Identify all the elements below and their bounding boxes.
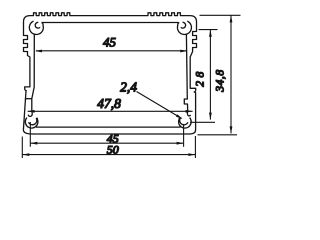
svg-text:2,4: 2,4 — [120, 80, 137, 95]
arrow 45 top left — [35, 50, 42, 53]
ext line 28 bottom — [190, 121, 215, 123]
svg-text:34,8: 34,8 — [215, 69, 227, 93]
arrow 50 right — [188, 153, 195, 156]
svg-text:45: 45 — [103, 35, 117, 50]
enclosure outer contour with serrated fins — [23, 13, 196, 134]
svg-text:50: 50 — [107, 142, 119, 156]
leader line 2.4 — [137, 92, 182, 119]
dimension line 34.8 — [230, 15, 232, 133]
ext line bottom 45 right — [183, 124, 185, 147]
left wall base ledge — [25, 98, 32, 100]
left wall lower hook lip — [28, 111, 32, 116]
ext line 28 top — [199, 29, 218, 31]
bottom-left screw boss — [25, 118, 38, 128]
arrow 45 top right — [180, 50, 187, 53]
left wall inner face — [32, 34, 35, 111]
arrow 28 bottom — [209, 113, 212, 120]
right wall inner face with pcb ledge — [184, 34, 187, 111]
svg-text:28: 28 — [195, 68, 207, 87]
ext line 50 right — [194, 136, 196, 158]
arrow 28 top — [209, 30, 212, 37]
bottom wall inner face — [36, 126, 181, 128]
top-right screw boss — [177, 21, 191, 34]
dimension line 50 — [22, 154, 195, 156]
arrow 2.4 — [176, 114, 183, 119]
arrow 34.8 bottom — [230, 126, 233, 133]
dimension line 45 top — [36, 50, 187, 52]
arrow 47.8 right — [186, 110, 193, 113]
right wall lower hook lip — [187, 111, 190, 116]
dimension line 28 — [209, 30, 211, 120]
dimension line 45 bottom — [30, 142, 183, 144]
top-left screw boss — [29, 21, 43, 34]
ext line 34.8 top — [200, 14, 241, 16]
top wall inner face — [42, 22, 179, 24]
arrow 50 left — [22, 153, 29, 156]
arrow 34.8 top — [230, 15, 233, 22]
ext line 50 left — [21, 137, 23, 159]
arrow 45 bottom left — [30, 142, 37, 145]
arrow 47.8 left — [28, 110, 35, 113]
dimension line 47.8 — [28, 110, 193, 112]
svg-text:47,8: 47,8 — [97, 96, 121, 111]
arrow 45 bottom right — [177, 142, 184, 145]
ext line 34.8 bottom — [198, 134, 238, 136]
bottom-right screw boss — [179, 118, 192, 128]
ext line bottom 45 left — [29, 122, 31, 147]
